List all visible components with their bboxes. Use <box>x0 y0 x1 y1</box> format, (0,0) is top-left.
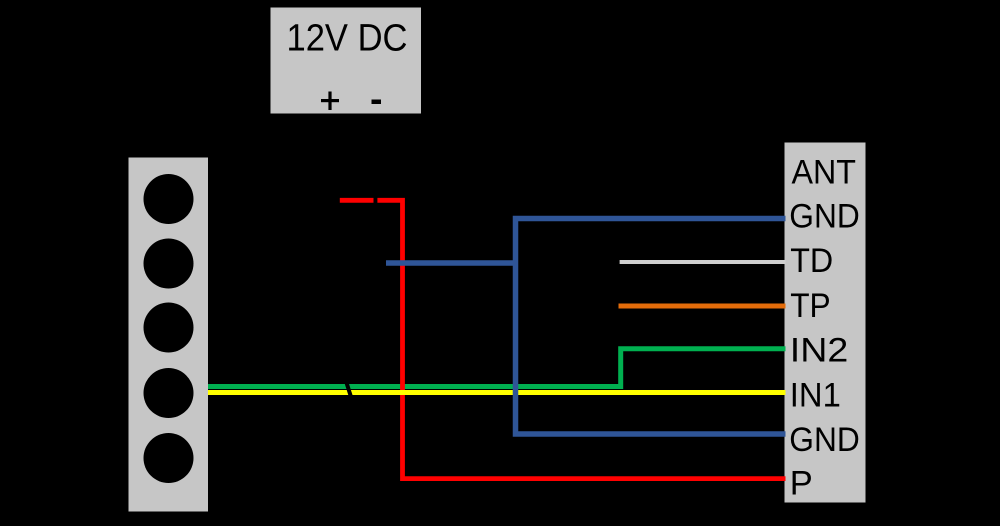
wire blue GND loop (GND top to GND bottom) <box>516 219 786 435</box>
svg-text:IN2: IN2 <box>790 332 849 370</box>
svg-text:P: P <box>790 465 813 503</box>
cable break marker on green/yellow pair <box>346 380 352 399</box>
J1 pin hole 4 <box>144 368 194 418</box>
J1 pin hole 5 <box>144 433 194 483</box>
power supply 12V DC <box>271 8 422 114</box>
supply terminal - <box>372 100 382 105</box>
connector J2 body (module terminal strip) <box>785 143 866 503</box>
wire white TD <box>620 260 786 264</box>
wire green IN2 (J1 pin 4 to IN2) <box>208 349 786 387</box>
svg-text:ANT: ANT <box>792 154 857 192</box>
svg-text:12V DC: 12V DC <box>287 18 408 60</box>
wire orange TP <box>619 304 786 309</box>
J1 pin hole 1 <box>144 174 194 224</box>
J1 pin hole 2 <box>144 239 194 289</box>
wire yellow IN1 (J1 pin 4 to IN1) <box>208 390 786 395</box>
svg-text:TP: TP <box>790 287 831 325</box>
wire red +12V to P terminal <box>377 200 785 478</box>
svg-text:GND: GND <box>789 198 860 236</box>
wire red +12V dashed segment <box>340 198 374 203</box>
svg-text:GND: GND <box>789 421 860 459</box>
supply terminal + <box>321 92 339 111</box>
J1 pin hole 3 <box>144 303 194 353</box>
svg-text:IN1: IN1 <box>790 377 841 415</box>
wire blue GND stub <box>386 260 516 266</box>
svg-text:TD: TD <box>790 242 833 280</box>
connector J1 body (5-hole socket) <box>129 158 209 512</box>
